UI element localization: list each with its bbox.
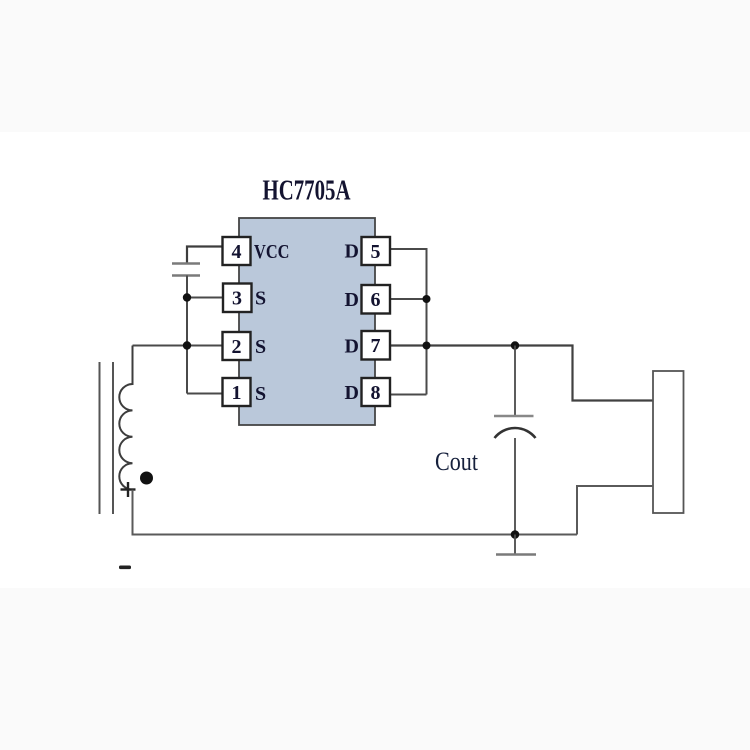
svg-text:S: S: [255, 336, 266, 358]
pin 1 box: [223, 378, 251, 406]
svg-text:D: D: [345, 336, 359, 358]
junction dot bus pin7: [423, 342, 431, 350]
junction dot ground: [511, 530, 520, 539]
wire pin 6 to bus: [390, 298, 427, 300]
pin 7 box: [362, 331, 391, 360]
svg-text:S: S: [255, 383, 266, 405]
wire pin 7 output net: [390, 346, 653, 401]
svg-text:4: 4: [232, 241, 242, 263]
transformer T1 secondary winding: [119, 346, 132, 490]
svg-text:D: D: [345, 382, 359, 404]
junction dot pin3 net: [183, 293, 191, 301]
wire pin4 to capacitor C1: [187, 247, 223, 264]
svg-text:3: 3: [232, 288, 242, 310]
wire to pin 1: [187, 393, 223, 395]
capacitor C1: [172, 264, 200, 276]
svg-text:S: S: [255, 288, 266, 310]
svg-text:6: 6: [371, 289, 381, 311]
pin 4 box: [223, 237, 251, 265]
pin 6 box: [362, 285, 391, 314]
svg-text:D: D: [345, 241, 359, 263]
junction dot bus pin6: [423, 295, 431, 303]
wire pin 5 to bus: [390, 249, 427, 395]
pin 8 box: [362, 378, 391, 406]
junction dot pin2 net: [183, 341, 191, 349]
svg-text:2: 2: [232, 336, 242, 358]
op-amp U1 HC7705A body: [239, 218, 375, 425]
junction dot Cout top: [511, 341, 519, 349]
capacitor Cout: [494, 346, 536, 535]
svg-text:5: 5: [371, 241, 381, 263]
load resistor: [653, 371, 684, 513]
wire to pin 3: [187, 297, 223, 299]
polarity dot: [140, 472, 153, 485]
wire C1 to pin1 net vertical: [186, 276, 188, 394]
wire load bottom to ground rail: [577, 486, 653, 535]
wire pin 8 to bus: [390, 394, 427, 396]
transformer T1 core: [100, 362, 114, 514]
svg-text:7: 7: [371, 335, 381, 357]
terminal +: [121, 482, 136, 497]
svg-text:8: 8: [371, 382, 381, 404]
svg-text:Cout: Cout: [435, 447, 479, 476]
ground: [496, 535, 536, 555]
wire to pin 2: [133, 345, 223, 347]
terminal -: [119, 566, 131, 570]
svg-text:HC7705A: HC7705A: [263, 176, 352, 207]
svg-text:D: D: [345, 289, 359, 311]
svg-text:VCC: VCC: [254, 241, 290, 263]
pin 3 box: [223, 284, 252, 313]
pin 2 box: [223, 332, 251, 360]
wire winding bottom to ground rail: [133, 490, 578, 535]
pin 5 box: [362, 237, 391, 265]
svg-text:1: 1: [232, 382, 242, 404]
